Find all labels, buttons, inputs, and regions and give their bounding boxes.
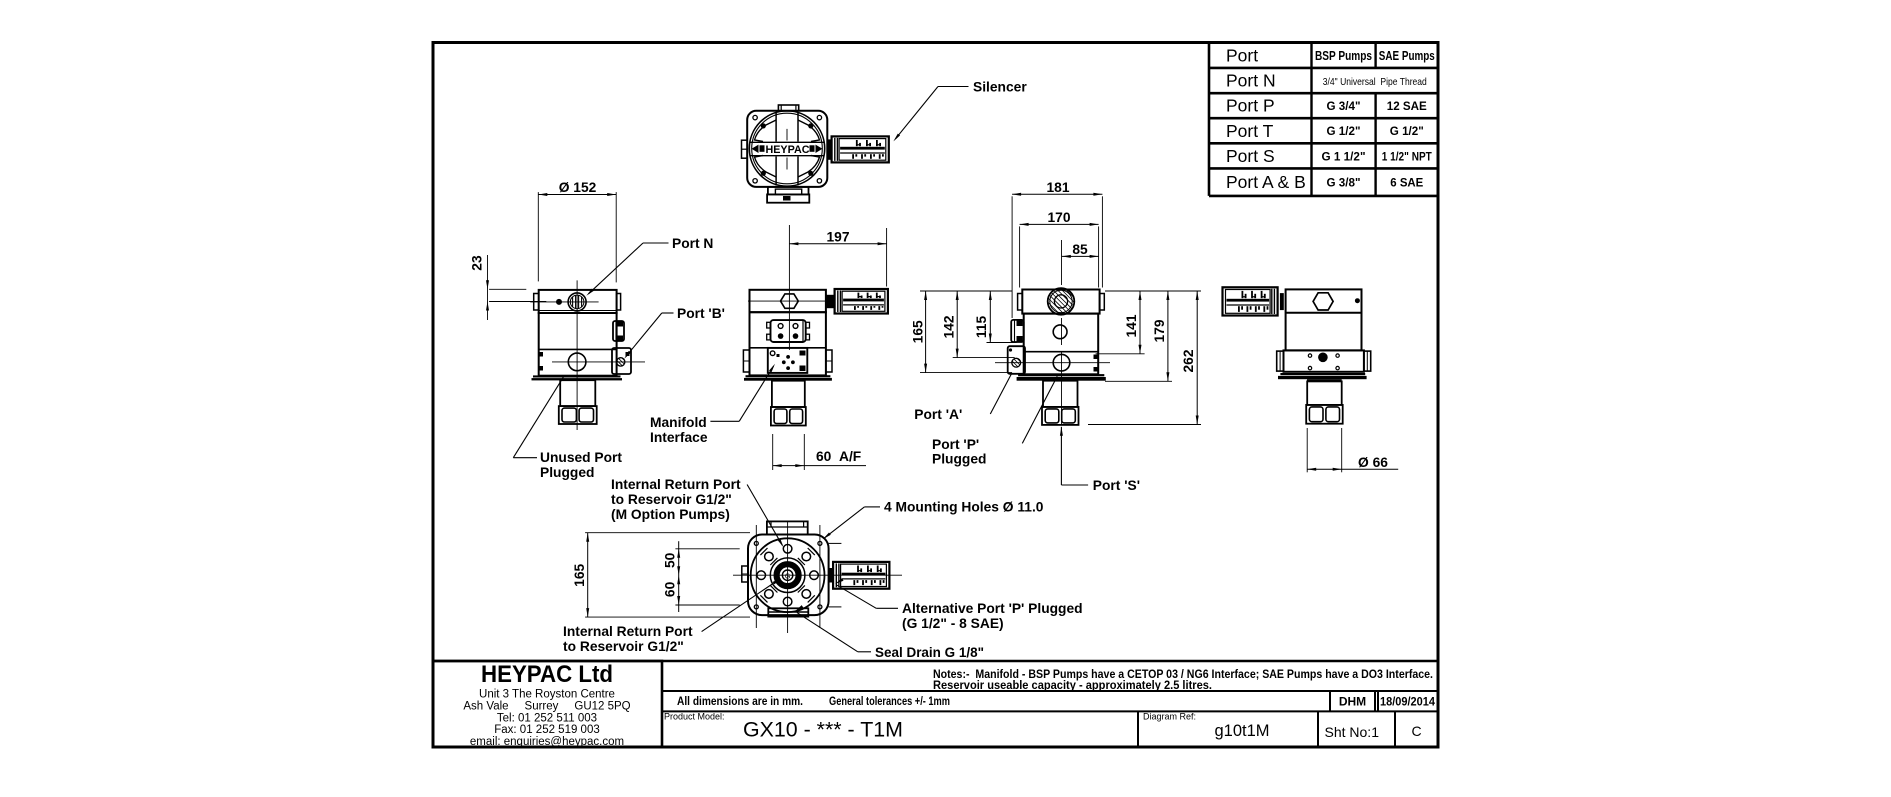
svg-text:Fax: 01 252 519 003: Fax: 01 252 519 003	[494, 724, 600, 736]
svg-text:Sht No:1: Sht No:1	[1325, 724, 1380, 740]
svg-text:G 1 1/2": G 1 1/2"	[1322, 149, 1366, 163]
svg-text:18/09/2014: 18/09/2014	[1380, 695, 1435, 709]
svg-text:12 SAE: 12 SAE	[1387, 99, 1427, 113]
svg-text:Port N: Port N	[672, 236, 713, 251]
svg-text:HEYPAC Ltd: HEYPAC Ltd	[481, 661, 613, 688]
svg-text:165: 165	[572, 563, 587, 586]
svg-text:Unit 3 The Royston Centre: Unit 3 The Royston Centre	[479, 689, 615, 701]
svg-text:142: 142	[942, 315, 957, 338]
svg-text:Port T: Port T	[1226, 121, 1274, 141]
svg-text:G 3/8": G 3/8"	[1327, 176, 1361, 190]
svg-text:email: enquiries@heypac.com: email: enquiries@heypac.com	[470, 736, 624, 748]
svg-text:to Reservoir G1/2": to Reservoir G1/2"	[563, 639, 684, 654]
svg-text:General tolerances +/- 1mm: General tolerances +/- 1mm	[829, 694, 950, 708]
svg-text:Port S: Port S	[1226, 146, 1275, 166]
svg-text:6 SAE: 6 SAE	[1390, 176, 1423, 190]
svg-text:Unused Port: Unused Port	[540, 450, 622, 465]
svg-text:181: 181	[1046, 180, 1069, 195]
svg-text:23: 23	[470, 255, 485, 271]
svg-text:Alternative Port 'P' Plugged: Alternative Port 'P' Plugged	[902, 601, 1083, 616]
svg-text:BSP Pumps: BSP Pumps	[1315, 48, 1372, 63]
svg-text:Reservoir useable capacity - a: Reservoir useable capacity - approximate…	[933, 679, 1212, 692]
svg-text:Internal Return Port: Internal Return Port	[563, 624, 693, 639]
svg-text:Product Model:: Product Model:	[664, 712, 725, 722]
svg-text:1 1/2" NPT: 1 1/2" NPT	[1382, 149, 1433, 163]
svg-text:Tel: 01 252 511 003: Tel: 01 252 511 003	[497, 712, 597, 724]
svg-text:197: 197	[826, 229, 849, 244]
svg-text:4 Mounting Holes Ø 11.0: 4 Mounting Holes Ø 11.0	[884, 500, 1044, 515]
svg-text:141: 141	[1124, 314, 1139, 337]
svg-text:85: 85	[1072, 242, 1088, 257]
svg-text:G 3/4": G 3/4"	[1327, 99, 1361, 113]
svg-text:All dimensions are in mm.: All dimensions are in mm.	[677, 694, 803, 708]
svg-text:G 1/2": G 1/2"	[1327, 124, 1361, 138]
svg-text:Port 'S': Port 'S'	[1093, 478, 1140, 493]
svg-text:C: C	[1411, 723, 1421, 739]
svg-text:Interface: Interface	[650, 430, 708, 445]
svg-text:Silencer: Silencer	[973, 80, 1027, 95]
svg-text:to Reservoir G1/2": to Reservoir G1/2"	[611, 492, 732, 507]
svg-text:(M Option Pumps): (M Option Pumps)	[611, 507, 730, 522]
svg-text:Port N: Port N	[1226, 71, 1276, 91]
svg-text:Diagram Ref:: Diagram Ref:	[1143, 712, 1196, 722]
svg-text:Plugged: Plugged	[932, 452, 986, 467]
svg-text:262: 262	[1181, 349, 1196, 372]
svg-text:g10t1M: g10t1M	[1214, 722, 1269, 740]
svg-text:50: 50	[663, 552, 678, 568]
svg-text:170: 170	[1047, 210, 1070, 225]
svg-text:60 A/F: 60 A/F	[816, 449, 861, 464]
svg-text:Ø 66: Ø 66	[1358, 455, 1388, 470]
svg-text:Port 'A': Port 'A'	[914, 407, 962, 422]
svg-text:Plugged: Plugged	[540, 465, 594, 480]
svg-text:GX10 - *** - T1M: GX10 - *** - T1M	[743, 719, 903, 742]
svg-text:DHM: DHM	[1339, 695, 1366, 709]
svg-text:115: 115	[974, 316, 989, 339]
svg-text:Seal Drain G 1/8": Seal Drain G 1/8"	[875, 645, 984, 660]
svg-text:179: 179	[1152, 319, 1167, 342]
svg-text:HEYPAC: HEYPAC	[766, 144, 810, 156]
svg-text:Port: Port	[1226, 45, 1258, 65]
svg-text:SAE Pumps: SAE Pumps	[1379, 48, 1435, 63]
svg-text:Port 'P': Port 'P'	[932, 437, 979, 452]
svg-text:Port A & B: Port A & B	[1226, 172, 1306, 192]
svg-text:Manifold: Manifold	[650, 415, 707, 430]
svg-text:Internal Return Port: Internal Return Port	[611, 477, 741, 492]
svg-text:Port 'B': Port 'B'	[677, 306, 725, 321]
svg-text:3/4" Universal Pipe Thread: 3/4" Universal Pipe Thread	[1323, 76, 1427, 88]
svg-text:165: 165	[911, 320, 926, 343]
svg-text:Ash Vale Surrey GU12 5: Ash Vale Surrey GU12 5PQ	[463, 700, 630, 712]
svg-text:Ø 152: Ø 152	[559, 180, 597, 195]
svg-text:G 1/2": G 1/2"	[1390, 124, 1424, 138]
svg-text:60: 60	[663, 581, 678, 597]
svg-text:Port P: Port P	[1226, 96, 1275, 116]
svg-text:(G 1/2" - 8 SAE): (G 1/2" - 8 SAE)	[902, 616, 1004, 631]
